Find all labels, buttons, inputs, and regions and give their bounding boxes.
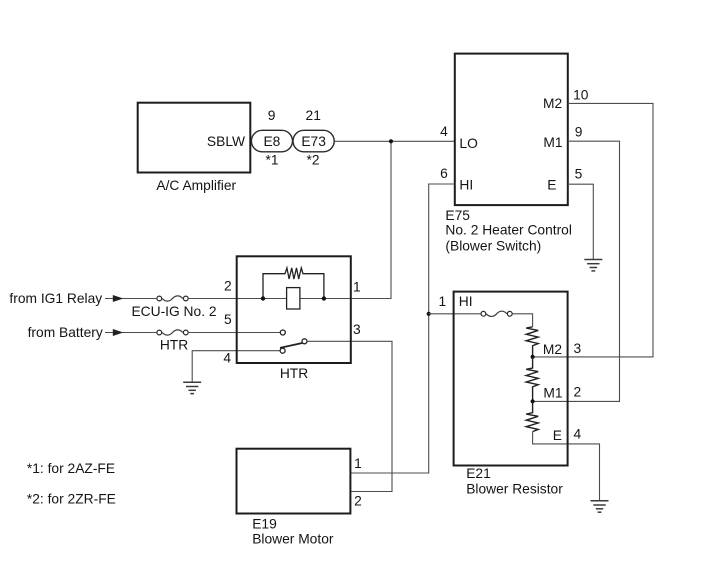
svg-text:1: 1 (354, 456, 362, 471)
relay switch contact pin 5 (280, 330, 285, 335)
relay switch contact pin 4 (280, 348, 285, 353)
svg-text:SBLW: SBLW (207, 134, 245, 149)
node relay coil right (322, 296, 326, 300)
svg-text:A/C Amplifier: A/C Amplifier (156, 178, 236, 193)
wire SBLW to LO (334, 140, 455, 142)
svg-text:1: 1 (353, 280, 361, 295)
svg-text:E73: E73 (301, 134, 326, 149)
svg-text:HTR: HTR (160, 338, 188, 353)
svg-text:6: 6 (440, 166, 448, 181)
svg-text:E: E (547, 177, 556, 192)
svg-text:5: 5 (224, 312, 232, 327)
fuse HTR (157, 330, 188, 353)
wire junction to relay pin 1 (351, 141, 391, 298)
svg-text:4: 4 (574, 427, 582, 442)
resistor R1 in E21 (526, 327, 538, 357)
wire from Battery line (28, 325, 157, 340)
wire E21 E pin to ground (533, 432, 600, 501)
A/C amplifier box (138, 103, 251, 194)
svg-text:E21: E21 (466, 466, 491, 481)
wire relay pin 4 to ground (192, 351, 280, 383)
resistor R2 in E21 (526, 357, 538, 402)
connector E73 (293, 108, 334, 168)
svg-text:ECU-IG No. 2: ECU-IG No. 2 (131, 304, 216, 319)
svg-text:Blower Motor: Blower Motor (252, 531, 334, 546)
svg-text:21: 21 (306, 108, 321, 123)
svg-text:9: 9 (575, 124, 583, 139)
svg-text:E75: E75 (445, 208, 470, 223)
svg-text:E: E (553, 428, 562, 443)
block E19 box (237, 449, 351, 547)
svg-text:*2: for 2ZR-FE: *2: for 2ZR-FE (27, 492, 116, 507)
svg-text:2: 2 (574, 385, 582, 400)
node junction SBLW (389, 139, 393, 143)
ground below E21 (591, 501, 609, 512)
node relay coil left (261, 296, 265, 300)
svg-text:M2: M2 (543, 96, 562, 111)
svg-text:M2: M2 (543, 342, 562, 357)
svg-text:*2: *2 (306, 153, 319, 168)
svg-text:3: 3 (574, 341, 582, 356)
svg-text:from Battery: from Battery (28, 325, 103, 340)
svg-text:9: 9 (268, 108, 276, 123)
svg-text:HI: HI (459, 294, 473, 309)
svg-text:HI: HI (459, 178, 473, 193)
relay coil (287, 288, 300, 309)
relay switch blade (280, 343, 302, 348)
wire fuse to relay pin 5 switch contact (189, 332, 281, 334)
fuse inside E21 (481, 311, 533, 327)
svg-text:*1: for 2AZ-FE: *1: for 2AZ-FE (27, 461, 115, 476)
wire M2 E75 to E21 (533, 103, 653, 357)
node junction HI (427, 312, 431, 316)
svg-text:*1: *1 (265, 153, 278, 168)
op-block E75 box (445, 54, 572, 254)
ground below E75 (584, 260, 602, 271)
resistor R3 in E21 and wire to ground (526, 401, 538, 431)
svg-text:10: 10 (573, 87, 589, 102)
relay HTR box (237, 256, 351, 381)
wire from IG1 Relay line (9, 291, 156, 306)
svg-text:3: 3 (353, 322, 361, 337)
wire relay pin 3 to E19 pin 2 (307, 341, 392, 491)
connector E8 (251, 108, 292, 168)
svg-text:1: 1 (438, 294, 446, 309)
svg-text:Blower Resistor: Blower Resistor (466, 481, 563, 496)
node M1 of E21 (531, 399, 535, 403)
svg-text:M1: M1 (543, 385, 562, 400)
svg-text:5: 5 (575, 167, 583, 182)
relay coil parallel branch with resistor (263, 268, 324, 299)
svg-text:M1: M1 (543, 135, 562, 150)
block E21 box (454, 292, 568, 497)
svg-text:E8: E8 (263, 134, 280, 149)
wire fuse to relay pin 2 and through relay to pin 1 (189, 298, 351, 300)
svg-text:from IG1 Relay: from IG1 Relay (9, 291, 102, 306)
fuse ECU-IG No. 2 (131, 296, 216, 319)
svg-text:(Blower Switch): (Blower Switch) (445, 238, 541, 253)
svg-text:HTR: HTR (280, 366, 308, 381)
node M2 of E21 (531, 355, 535, 359)
wire E75 E pin to ground (568, 184, 594, 259)
svg-text:2: 2 (224, 278, 232, 293)
svg-text:4: 4 (223, 351, 231, 366)
wire M1 E75 to E21 (533, 141, 620, 401)
ground below relay (183, 382, 201, 393)
wire HI branch into E21 (429, 313, 481, 315)
relay switch contact pin 3 (302, 339, 307, 344)
svg-text:E19: E19 (252, 517, 277, 532)
svg-text:No. 2 Heater Control: No. 2 Heater Control (445, 223, 572, 238)
svg-text:2: 2 (354, 494, 362, 509)
wire HI bus: E75 HI down to E19 pin 1 (350, 184, 454, 473)
svg-text:4: 4 (440, 124, 448, 139)
svg-text:LO: LO (459, 136, 478, 151)
